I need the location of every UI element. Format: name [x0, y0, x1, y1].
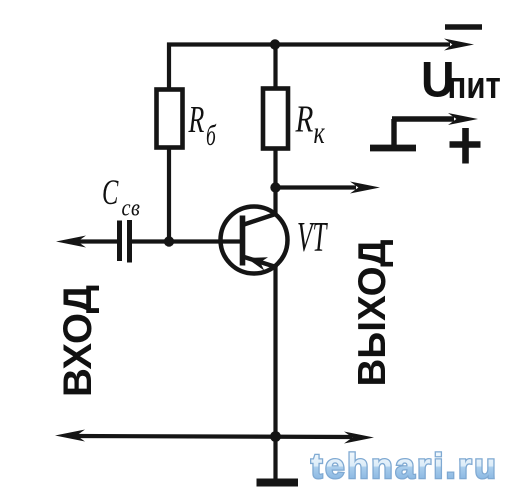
wire top rail: [167, 42, 450, 46]
svg-text:tehnari.ru: tehnari.ru: [311, 447, 498, 486]
node base: [164, 236, 174, 246]
arrowheads: [55, 39, 474, 444]
transistor VT base bar: [240, 216, 246, 266]
transistor VT emitter arrow (points to base: PNP): [247, 257, 269, 270]
wire bottom node to ground: [273, 437, 277, 481]
node top rail / Rk: [270, 39, 280, 49]
node collector / output: [270, 182, 280, 192]
wire collector node down to transistor: [273, 187, 277, 215]
plus terminal step symbol: [370, 119, 454, 150]
resistor Rk: [263, 89, 288, 149]
capacitor Csv plates: [120, 220, 130, 263]
minus terminal bar: [445, 24, 482, 29]
svg-text:к: к: [314, 116, 326, 151]
svg-text:VT: VT: [297, 215, 328, 261]
svg-text:пит: пит: [448, 65, 501, 107]
arrow bottom right: [344, 432, 374, 444]
svg-text:св: св: [122, 194, 141, 221]
arrow input left: [56, 236, 86, 248]
svg-text:ВХОД: ВХОД: [56, 285, 100, 397]
wire Rb bottom to base node: [167, 147, 171, 242]
wire emitter down to bottom node: [273, 266, 277, 437]
plus sign: [450, 128, 481, 164]
wire bottom double-arrow shaft: [74, 436, 352, 437]
node emitter / bottom: [270, 431, 281, 442]
arrow bottom left: [55, 430, 85, 442]
wire capacitor to base node to transistor base: [131, 239, 241, 243]
wire Rk bottom to collector node: [273, 148, 277, 188]
wire left drop from rail to Rb: [167, 43, 171, 91]
svg-text:R: R: [295, 99, 314, 140]
arrow plus terminal right: [448, 113, 478, 125]
svg-text:C: C: [102, 172, 119, 212]
svg-text:R: R: [188, 99, 205, 141]
svg-text:ВЫХОД: ВЫХОД: [351, 239, 394, 386]
transistor VT (PNP): [221, 207, 288, 274]
wire Rk top lead: [273, 43, 277, 90]
svg-text:б: б: [206, 119, 217, 152]
transistor VT collector lead: [243, 214, 278, 226]
wire input segment left of capacitor: [74, 239, 117, 243]
transistor VT body circle: [221, 207, 288, 274]
ground: [257, 479, 299, 487]
wire output arrow shaft: [276, 185, 357, 189]
resistor Rb: [157, 90, 183, 148]
arrow top rail right: [444, 39, 474, 51]
arrow output right: [350, 182, 380, 194]
transistor VT emitter lead: [243, 257, 278, 268]
